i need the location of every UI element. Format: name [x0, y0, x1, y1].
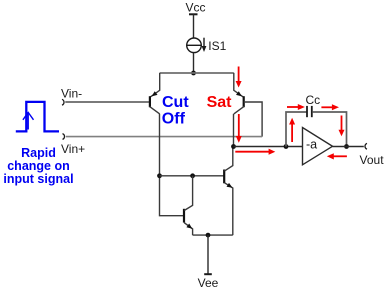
port Vin-	[61, 86, 82, 105]
wire to Vee	[207, 235, 209, 274]
input pulse waveform	[16, 102, 59, 131]
wire tail rail	[160, 72, 234, 74]
node Vee junction	[206, 233, 211, 238]
node mirror left junction	[157, 173, 162, 178]
svg-text:input signal: input signal	[3, 172, 73, 186]
current source IS1	[187, 38, 227, 54]
wire bottom emitter rail	[193, 234, 233, 236]
transistor Q4 (NPN mirror output)	[224, 147, 233, 236]
power symbol Vee	[198, 274, 219, 290]
current arrow into op-amp output	[327, 153, 347, 159]
svg-text:Off: Off	[162, 111, 186, 128]
wire Cc left riser	[286, 112, 307, 147]
svg-text:IS1: IS1	[208, 39, 226, 53]
svg-text:Vout: Vout	[360, 153, 385, 167]
wire Q2 collector to node	[233, 114, 235, 147]
current arrow into second stage	[235, 149, 275, 155]
svg-text:Vcc: Vcc	[185, 1, 205, 15]
wire Vcc to IS1	[193, 14, 195, 38]
node Q3 collector junction	[190, 173, 195, 178]
label Rapid change on input signal	[3, 146, 73, 186]
current arrow down right riser	[339, 116, 345, 137]
wire op-amp output to Vout	[333, 146, 364, 148]
wire Cc right riser	[312, 112, 346, 147]
current arrow Cc left segment	[287, 104, 305, 110]
wire node to op-amp input	[234, 146, 303, 148]
current arrow Cc right segment	[321, 104, 339, 110]
svg-text:Vin-: Vin-	[61, 86, 82, 100]
svg-text:Sat: Sat	[207, 94, 233, 111]
svg-text:Vin+: Vin+	[61, 142, 85, 156]
wire IS1 to tail rail	[193, 53, 195, 73]
port Vin+	[61, 134, 85, 157]
port Vout	[360, 143, 385, 167]
wire mirror base rail	[160, 175, 225, 177]
node Cc left tap	[284, 144, 289, 149]
node op-amp output junction	[344, 144, 349, 149]
node tail junction	[191, 71, 196, 76]
capacitor Cc	[306, 93, 321, 117]
wire Q1 collector down to mirror	[160, 114, 185, 216]
wire Vin+ line	[66, 136, 262, 138]
transistor Q1 (PNP left, Cut Off)	[150, 73, 160, 114]
transistor Q3 (NPN diode-connected)	[184, 176, 193, 235]
svg-text:Vee: Vee	[198, 276, 219, 290]
wire Q2 base loop	[244, 102, 262, 137]
node second stage input	[231, 144, 236, 149]
op-amp U1 (-a)	[303, 128, 333, 165]
current arrow out of Q2 collector	[236, 114, 242, 143]
power symbol Vcc	[185, 1, 205, 15]
wire Vin- base wire	[65, 101, 149, 103]
transistor Q2 (PNP right, Sat)	[234, 73, 244, 114]
current arrow into Q2 emitter	[236, 67, 242, 88]
svg-text:Cut: Cut	[162, 94, 189, 111]
svg-text:Cc: Cc	[306, 93, 321, 107]
current arrow up left riser	[289, 118, 295, 142]
svg-text:-a: -a	[306, 137, 317, 151]
